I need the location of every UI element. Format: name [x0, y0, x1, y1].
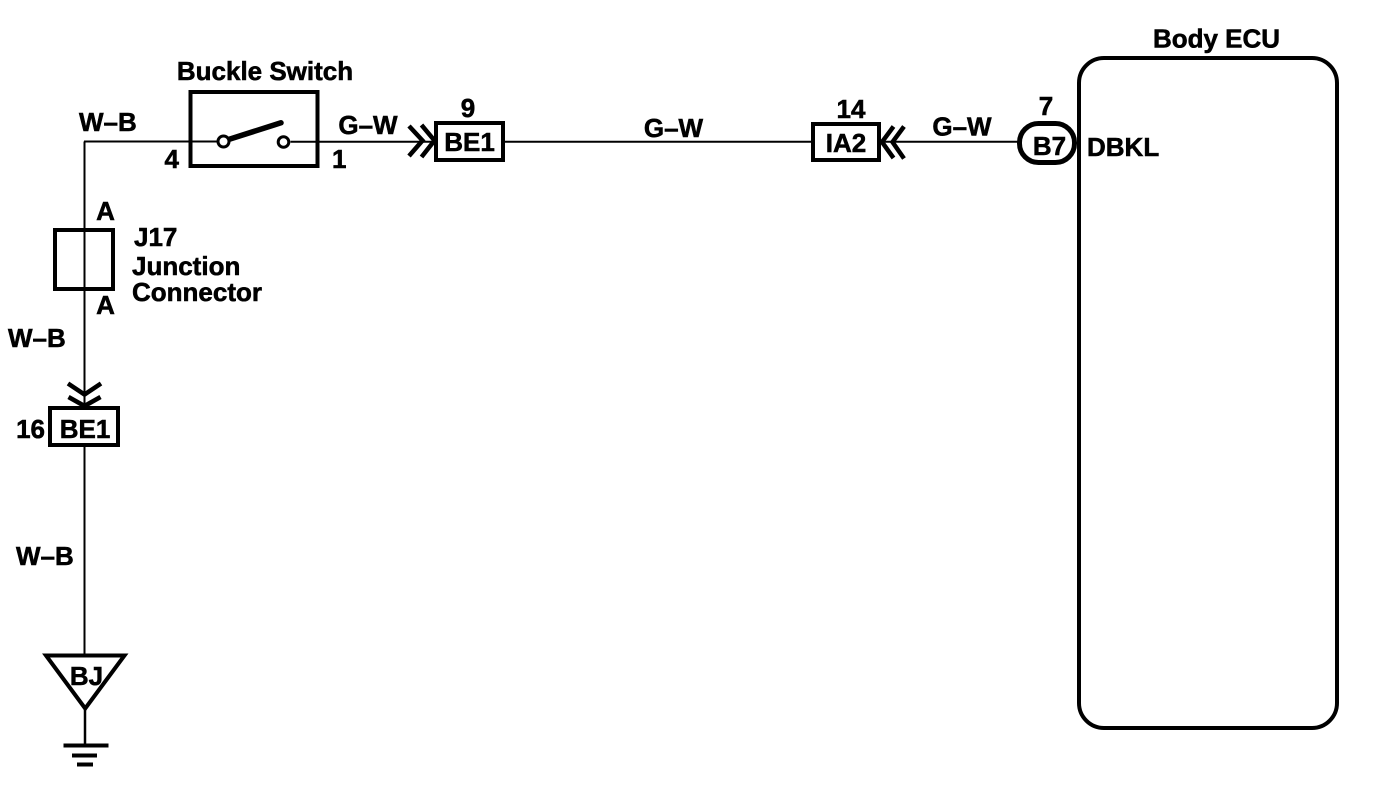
svg-text:W–B: W–B [16, 541, 74, 571]
svg-text:G–W: G–W [644, 113, 704, 143]
connector BE1 pin 16 box [50, 408, 118, 445]
Body ECU box [1079, 58, 1337, 728]
switch lever [229, 123, 282, 140]
ground symbol [64, 744, 109, 748]
connector IA2 pin 14 box [813, 124, 879, 160]
svg-text:16: 16 [16, 414, 45, 444]
svg-text:9: 9 [461, 93, 475, 123]
svg-text:W–B: W–B [8, 323, 66, 353]
svg-text:G–W: G–W [338, 110, 398, 140]
wire W-B horizontal from corner into buckle switch [84, 141, 217, 143]
wire W-B lower vertical [84, 447, 86, 655]
svg-text:BE1: BE1 [60, 414, 111, 444]
svg-text:J17: J17 [134, 222, 177, 252]
junction connector J17 square [55, 230, 113, 289]
wire from BJ to ground [84, 708, 87, 745]
svg-text:W–B: W–B [79, 107, 137, 137]
connector chevron left-pointing pair after IA2 [882, 127, 894, 159]
svg-text:Body ECU: Body ECU [1153, 24, 1280, 54]
svg-text:A: A [96, 290, 115, 320]
buckle switch box [191, 92, 318, 166]
switch contact circle left [218, 136, 229, 147]
svg-text:Buckle Switch: Buckle Switch [177, 56, 353, 86]
svg-text:DBKL: DBKL [1087, 132, 1159, 162]
svg-text:BE1: BE1 [444, 127, 495, 157]
svg-text:1: 1 [332, 144, 346, 174]
switch contact circle right [278, 137, 289, 148]
connector BE1 pin 9 box [436, 123, 503, 160]
svg-text:Connector: Connector [132, 277, 262, 307]
svg-text:A: A [96, 196, 115, 226]
connector chevron right-pointing pair before BE1 [409, 126, 423, 156]
svg-text:G–W: G–W [932, 112, 992, 142]
svg-text:4: 4 [165, 144, 180, 174]
connector chevron down-pointing pair above BE1 16 [68, 384, 101, 395]
wire W-B vertical left column [84, 142, 86, 656]
connector B7 oval on Body ECU [1020, 124, 1075, 163]
wire G-W horizontal from switch pin 1 to B7 [291, 141, 1019, 143]
svg-text:IA2: IA2 [826, 128, 866, 158]
svg-text:B7: B7 [1033, 131, 1066, 161]
svg-text:BJ: BJ [70, 661, 103, 691]
ground triangle BJ [46, 656, 125, 709]
svg-text:7: 7 [1039, 91, 1053, 121]
svg-text:14: 14 [837, 94, 866, 124]
